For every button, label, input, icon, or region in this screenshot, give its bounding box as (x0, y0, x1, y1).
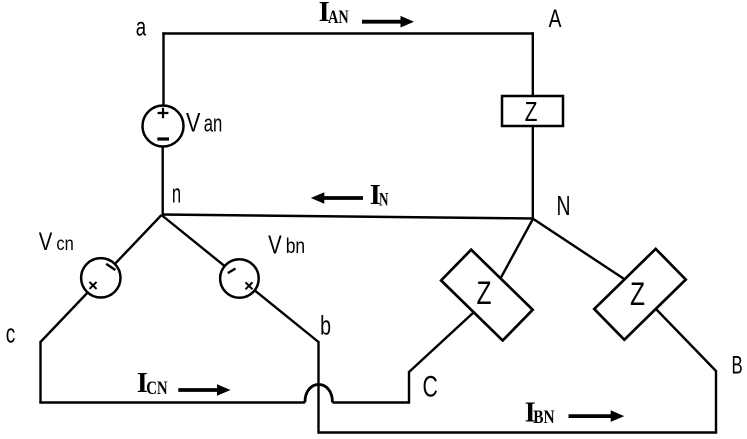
current label IBN (525, 397, 555, 428)
wire a to Van (left vertical top) (162, 32, 164, 106)
wire n to N (horizontal neutral) (162, 215, 534, 219)
svg-text:N: N (379, 190, 389, 211)
wire Z2 to N (diagonal) (497, 219, 533, 284)
wire hop to C corner (333, 401, 410, 403)
wire Van to n (left vertical bottom) (161, 146, 163, 217)
Vbn minus marking (slanted dash) (228, 269, 236, 274)
svg-text:V: V (186, 107, 200, 137)
wire c bottom horizontal left of hop (39, 401, 305, 403)
svg-text:cn: cn (56, 234, 73, 255)
svg-text:n: n (172, 178, 181, 208)
impedance Z1 (top right box) (502, 96, 563, 126)
svg-text:c: c (6, 319, 16, 349)
wire b to Vbn to n (diagonal) (162, 215, 319, 342)
impedance Z3 (right rotated box) (594, 249, 686, 340)
label Van (186, 107, 222, 137)
svg-text:V: V (268, 229, 282, 259)
wire Z1 to N (right vertical) (532, 125, 534, 219)
Van plus marking (158, 108, 169, 118)
current label ICN (137, 368, 168, 399)
Vcn plus marking (rotated x) (90, 282, 97, 289)
wire C to Z2 (diagonal) (409, 309, 477, 372)
current arrow IBN (569, 410, 625, 422)
voltage source Vbn (circle) (220, 259, 259, 298)
svg-text:C: C (423, 371, 438, 404)
wire C vertical (408, 371, 410, 404)
svg-text:a: a (136, 11, 147, 41)
voltage source Vcn (circle) (81, 258, 120, 297)
current arrow ICN (178, 384, 230, 396)
current label IN (370, 180, 389, 211)
svg-text:an: an (204, 110, 223, 137)
svg-text:Z: Z (630, 276, 645, 312)
wire c vertical (39, 341, 41, 403)
wire b vertical (317, 341, 319, 434)
wire A to Z1 (right vertical top) (532, 32, 534, 97)
svg-text:Z: Z (525, 96, 538, 127)
current arrow IAN (362, 16, 414, 28)
wire B to b (bottom horizontal) (319, 431, 718, 434)
svg-text:A: A (549, 5, 562, 33)
svg-text:AN: AN (328, 7, 349, 28)
Vcn minus marking (slanted dash) (106, 264, 115, 270)
current label IAN (319, 0, 349, 28)
svg-text:bn: bn (286, 235, 305, 258)
label Vcn (39, 228, 74, 256)
svg-text:V: V (39, 228, 53, 256)
Van minus marking (157, 137, 169, 140)
wire a to A (top horizontal) (162, 32, 534, 34)
wire hop over b wire (305, 384, 333, 402)
wire B vertical (715, 370, 717, 433)
svg-text:BN: BN (533, 407, 555, 428)
svg-text:CN: CN (146, 378, 168, 399)
wire N to Z3 (diagonal) (533, 219, 648, 295)
wire n to Vcn to c (diagonal) (41, 215, 162, 342)
label Vbn (268, 229, 305, 259)
svg-text:B: B (732, 351, 743, 379)
voltage source Van (circle) (143, 106, 184, 147)
wire Z3 to B (diagonal) (640, 292, 717, 371)
svg-text:b: b (320, 311, 331, 341)
Vbn plus marking (rotated x) (246, 282, 253, 289)
current arrow IN (311, 192, 363, 204)
svg-text:Z: Z (477, 275, 492, 311)
svg-text:N: N (557, 190, 571, 221)
impedance Z2 (left rotated box) (441, 250, 533, 341)
